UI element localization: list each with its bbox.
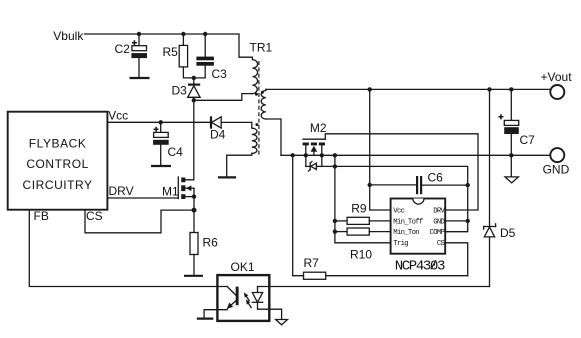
node junction M1 source / CS xyxy=(192,208,197,213)
node junction GND pin / COMP xyxy=(466,219,470,223)
wire CS pin to R7 xyxy=(445,243,468,276)
node junction GND rail / R7 branch xyxy=(291,153,295,157)
ground under aux winding xyxy=(218,176,236,178)
wire secondary bottom to GND rail xyxy=(266,119,281,155)
resistor R6 xyxy=(190,233,218,276)
svg-text:Vcc: Vcc xyxy=(108,108,128,122)
svg-text:DRV: DRV xyxy=(433,208,445,216)
svg-text:D4: D4 xyxy=(210,128,226,142)
svg-text:Min_Ton: Min_Ton xyxy=(393,229,419,237)
ground symbol secondary under OK1 LED xyxy=(276,320,288,325)
capacitor C2 xyxy=(115,34,148,78)
OK1 LED xyxy=(252,287,281,320)
svg-text:CIRCUITRY: CIRCUITRY xyxy=(23,178,93,192)
terminal GND xyxy=(550,148,564,162)
node junction GND rail / M2 drain xyxy=(320,153,324,157)
svg-text:C6: C6 xyxy=(428,171,444,185)
wire divider vertical to Trig xyxy=(335,155,391,243)
resistor R10 xyxy=(335,228,391,262)
node junction Vcc / C6 left xyxy=(368,183,372,187)
op-amp U1 NCP4303 controller xyxy=(391,199,446,254)
node junction C7 / GND rail xyxy=(509,153,513,157)
ground under OK1 emitter xyxy=(197,318,214,320)
svg-text:C2: C2 xyxy=(115,42,131,56)
svg-text:D5: D5 xyxy=(500,226,516,240)
svg-text:M1: M1 xyxy=(162,185,179,199)
wire FB to optocoupler xyxy=(29,210,227,287)
svg-text:R10: R10 xyxy=(350,248,372,262)
TR1 secondary winding xyxy=(261,89,266,119)
wire D5 to optocoupler LED anode xyxy=(258,286,490,288)
svg-text:GND: GND xyxy=(433,218,445,226)
svg-text:C3: C3 xyxy=(212,67,228,81)
ground under R6 xyxy=(184,275,203,277)
wire M1 drain vertical xyxy=(185,100,193,180)
resistor R5 xyxy=(163,34,194,78)
svg-text:D3: D3 xyxy=(172,84,188,98)
svg-text:R9: R9 xyxy=(351,201,367,215)
wire M2 drain sense line xyxy=(322,166,468,221)
diode D4 xyxy=(210,116,226,141)
wire Vcc supply vertical xyxy=(370,89,391,210)
node junction GND rail / M2 source xyxy=(304,153,308,157)
wire aux bottom to ground xyxy=(227,153,252,177)
wire M2 gate to DRV xyxy=(325,134,478,210)
diode D5 zener xyxy=(484,89,516,286)
TR1 primary phase dot xyxy=(255,93,258,96)
svg-text:C4: C4 xyxy=(168,145,184,159)
wire Vbulk rail to transformer primary xyxy=(85,34,253,57)
node junction C4/Vcc xyxy=(159,120,163,124)
svg-text:+Vout: +Vout xyxy=(541,70,573,84)
wire COMP pin to GND xyxy=(445,221,468,232)
rail +Vout xyxy=(266,88,550,91)
resistor R7 xyxy=(293,155,468,279)
ground under C2 xyxy=(130,77,150,79)
node junction D3 anode / primary / M1 drain xyxy=(192,98,196,102)
rail secondary GND xyxy=(281,154,550,156)
capacitor C4 xyxy=(153,122,183,165)
TR1 primary winding xyxy=(252,57,257,93)
svg-text:OK1: OK1 xyxy=(231,260,255,274)
terminal +Vout xyxy=(550,85,564,99)
TR1 aux phase dot xyxy=(255,123,258,126)
node junction drain line / divider xyxy=(333,164,337,168)
wire primary bottom to D3 node xyxy=(194,94,253,101)
capacitor C7 xyxy=(498,89,535,155)
wire CS sense path xyxy=(85,210,194,233)
svg-text:R7: R7 xyxy=(304,256,320,270)
ground under C4 xyxy=(151,165,171,167)
wire GND pin xyxy=(445,220,468,222)
diode D3 xyxy=(172,78,201,100)
svg-text:FLYBACK: FLYBACK xyxy=(29,137,87,151)
svg-text:FB: FB xyxy=(34,209,49,223)
optocoupler OK1 xyxy=(217,260,269,321)
node junction Vcc / +Vout rail xyxy=(368,87,372,91)
node junction snubber bottom xyxy=(192,76,196,80)
transistor M1 xyxy=(162,177,194,233)
TR1 aux winding xyxy=(252,122,257,153)
capacitor C6 xyxy=(370,171,468,195)
OK1 light arrows xyxy=(244,292,251,307)
node junction C7 / +Vout rail xyxy=(509,87,513,91)
node junction R5/Vbulk xyxy=(181,32,185,36)
svg-text:R6: R6 xyxy=(203,236,219,250)
svg-text:Min_Toff: Min_Toff xyxy=(393,218,423,226)
wire D4 anode to aux winding xyxy=(221,121,252,123)
node junction C3/Vbulk xyxy=(203,32,207,36)
svg-text:CONTROL: CONTROL xyxy=(26,157,89,171)
svg-text:GND: GND xyxy=(543,163,570,177)
svg-text:DRV: DRV xyxy=(109,184,134,198)
OK1 phototransistor xyxy=(204,287,238,319)
M2 body zener diode xyxy=(306,162,322,172)
svg-text:R5: R5 xyxy=(163,45,179,59)
svg-text:COMP: COMP xyxy=(430,229,445,237)
node junction R10 / divider xyxy=(333,229,337,233)
svg-text:M2: M2 xyxy=(310,121,327,135)
flyback control box xyxy=(8,112,108,210)
svg-text:Vbulk: Vbulk xyxy=(53,29,84,43)
node junction M1 source xyxy=(192,194,196,198)
svg-text:Vcc: Vcc xyxy=(393,208,404,216)
capacitor C3 xyxy=(194,34,227,81)
TR1 core xyxy=(258,61,260,156)
node junction D5 / +Vout rail xyxy=(487,87,491,91)
ground symbol secondary under C7 xyxy=(505,155,518,183)
svg-text:CS: CS xyxy=(86,209,103,223)
node junction C6 right / drain sense xyxy=(466,183,470,187)
node junction C2/Vbulk xyxy=(137,32,141,36)
node junction GND rail / sense divider xyxy=(333,153,337,157)
transistor M2 xyxy=(303,121,327,167)
wire DRV to M1 gate xyxy=(107,197,178,199)
svg-text:C7: C7 xyxy=(520,133,536,147)
svg-text:NCP4303: NCP4303 xyxy=(395,258,445,274)
resistor R9 xyxy=(335,201,391,224)
TR1 secondary phase dot xyxy=(261,91,264,94)
svg-text:Trig: Trig xyxy=(393,240,408,248)
wire Vcc to D4 xyxy=(107,121,211,123)
svg-text:TR1: TR1 xyxy=(250,41,273,55)
node junction R9 / divider xyxy=(333,219,337,223)
